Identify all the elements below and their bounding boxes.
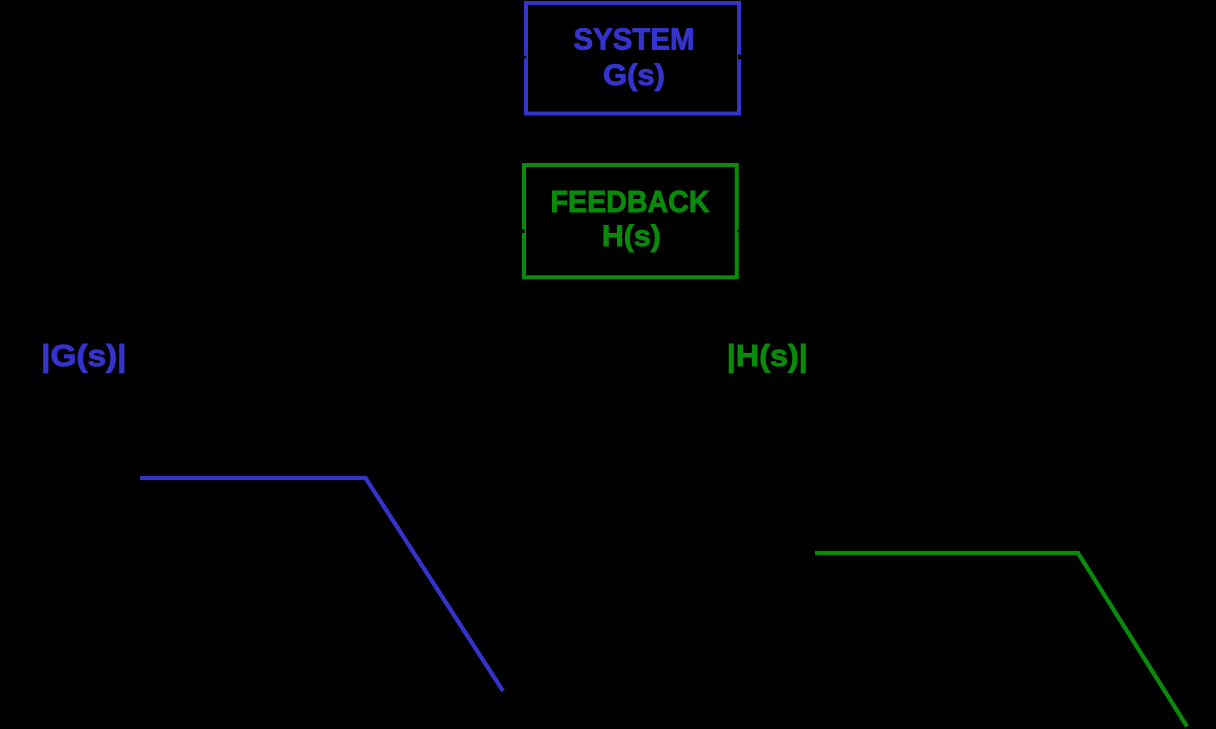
output wire stub notch on right border of G(s) block (738, 55, 742, 60)
svg-text:H(s): H(s) (602, 220, 661, 253)
H magnitude Bode curve (815, 553, 1187, 727)
block SYSTEM G(s) (526, 3, 739, 114)
output wire stub notch on left border of H(s) block (521, 229, 525, 233)
input arrowhead tip on right border of H(s) block (737, 230, 740, 233)
block FEEDBACK H(s) (524, 165, 737, 277)
svg-text:G(s): G(s) (603, 59, 665, 92)
svg-text:|H(s)|: |H(s)| (727, 338, 808, 373)
svg-text:SYSTEM: SYSTEM (574, 23, 695, 57)
svg-text:FEEDBACK: FEEDBACK (551, 185, 710, 219)
G magnitude Bode curve (140, 478, 503, 691)
svg-text:|G(s)|: |G(s)| (41, 338, 126, 373)
input arrowhead tip on left border of G(s) block (524, 55, 527, 58)
